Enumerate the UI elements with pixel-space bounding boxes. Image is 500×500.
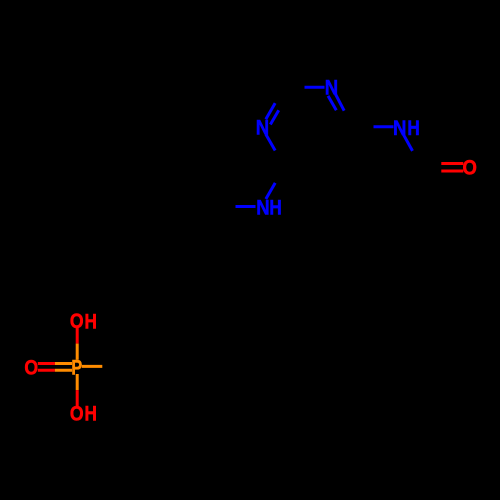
svg-text:O: O <box>24 355 38 380</box>
svg-text:H: H <box>269 195 281 220</box>
svg-text:P: P <box>71 355 82 380</box>
svg-text:N: N <box>256 115 269 140</box>
svg-text:H: H <box>407 115 419 140</box>
svg-text:H: H <box>85 308 97 333</box>
svg-text:O: O <box>70 401 84 426</box>
svg-text:H: H <box>85 401 97 426</box>
svg-text:O: O <box>463 155 477 180</box>
svg-text:N: N <box>393 115 406 140</box>
svg-text:N: N <box>256 195 269 220</box>
svg-text:O: O <box>70 308 84 333</box>
svg-text:N: N <box>325 75 338 100</box>
